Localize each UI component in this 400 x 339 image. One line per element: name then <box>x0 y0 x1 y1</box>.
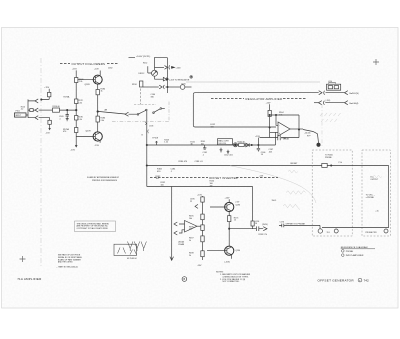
svg-text:.001: .001 <box>269 152 273 154</box>
relay dashed link <box>140 89 142 105</box>
resistor R197 <box>201 236 204 242</box>
connector J154 <box>327 84 341 90</box>
svg-text:-15V: -15V <box>197 265 202 267</box>
lower rail <box>147 165 330 167</box>
svg-text:AND THE LISTED: AND THE LISTED <box>58 261 73 264</box>
svg-text:PRINTED FOR REFERENCE: PRINTED FOR REFERENCE <box>92 180 118 182</box>
resistor R176 <box>75 116 78 121</box>
svg-text:(150V): (150V) <box>262 224 268 226</box>
resistor R195 <box>201 214 204 220</box>
svg-text:R170A: R170A <box>64 95 71 98</box>
svg-text:10: 10 <box>261 154 263 156</box>
section boundary dash-dot <box>112 121 169 123</box>
svg-text:Q194: Q194 <box>235 250 240 252</box>
svg-text:REGULATOR AMPLIFIER: REGULATOR AMPLIFIER <box>246 97 283 101</box>
svg-text:R186 470: R186 470 <box>179 161 189 163</box>
registration mark <box>20 256 26 262</box>
svg-text:C164: C164 <box>282 138 287 140</box>
svg-text:PROBE PΧR: PROBE PΧR <box>366 232 378 234</box>
resistor R172 <box>75 99 78 104</box>
error line to op-amp <box>195 126 276 128</box>
capacitor C176 <box>279 224 284 228</box>
capacitor C164 bypass <box>260 130 300 138</box>
ground 2 <box>227 150 230 154</box>
resistor R176A <box>75 128 78 133</box>
svg-text:R199 2.7k: R199 2.7k <box>259 234 268 236</box>
svg-text:-15V: -15V <box>71 150 76 152</box>
component outline drawing <box>114 244 137 255</box>
svg-text:BͷW 67(4): BͷW 67(4) <box>350 93 360 95</box>
svg-text:OUTPUT: OUTPUT <box>370 179 379 181</box>
signal wire to switch <box>98 111 125 114</box>
svg-text:+15V: +15V <box>266 103 272 105</box>
resistor R186 <box>96 116 99 122</box>
bias box L150 <box>218 139 233 145</box>
svg-text:OFFSET: OFFSET <box>290 163 298 165</box>
svg-text:45 2548 04: 45 2548 04 <box>127 258 136 260</box>
svg-text:+100V (DCPL): +100V (DCPL) <box>136 56 151 58</box>
svg-text:150.5: 150.5 <box>272 200 277 202</box>
svg-text:2.2k: 2.2k <box>79 81 83 83</box>
wire to followers <box>39 109 53 111</box>
svg-text:+10V: +10V <box>94 69 99 71</box>
svg-text:+15: +15 <box>375 211 378 213</box>
svg-text:Q193: Q193 <box>235 205 240 207</box>
svg-text:1k: 1k <box>101 91 103 93</box>
svg-text:C182: C182 <box>108 68 113 70</box>
capacitor C199 <box>256 226 263 231</box>
svg-text:R114 40: R114 40 <box>53 106 60 108</box>
svg-text:INPUT AMPLIFIER: INPUT AMPLIFIER <box>346 254 364 257</box>
REGULATOR AMPLIFIER label <box>211 98 244 100</box>
op-amp U163A <box>185 221 198 233</box>
svg-text:C188 .01: C188 .01 <box>195 161 204 163</box>
svg-text:-15V: -15V <box>46 132 51 134</box>
svg-text:R152: R152 <box>143 63 147 65</box>
transistor Q193 <box>225 202 234 211</box>
capacitor C161 <box>203 145 206 149</box>
svg-text:PROBE: PROBE <box>346 251 354 253</box>
pin arrow P1 <box>35 99 38 103</box>
regulator sense vertical <box>193 94 195 127</box>
svg-text:-15 (V): -15 (V) <box>304 132 311 134</box>
svg-text:SCANS BY ARTEKMEDIA SCANS BY: SCANS BY ARTEKMEDIA SCANS BY <box>87 176 120 179</box>
svg-text:.1: .1 <box>59 119 61 121</box>
transistor Q183 <box>93 75 102 84</box>
main rail <box>147 132 276 145</box>
op-amp U163B <box>276 115 278 125</box>
diode CR154 row <box>155 77 167 81</box>
+15V row <box>155 66 165 68</box>
diode CR156 row <box>143 86 159 88</box>
pin arrow P2 <box>28 108 38 112</box>
wire <box>26 99 35 117</box>
ghost zigzags <box>286 191 306 195</box>
pin arrow P3 <box>35 116 38 120</box>
svg-text:+15V: +15V <box>255 136 261 138</box>
left loop wire <box>170 187 174 261</box>
resistor R198 <box>201 251 204 257</box>
capacitor C166 <box>257 148 260 151</box>
svg-text:Q183: Q183 <box>85 84 91 86</box>
bus vertical <box>167 58 169 93</box>
switch S150 blade 2 <box>153 112 155 114</box>
svg-text:(-15V): (-15V) <box>326 100 331 102</box>
section divider right <box>321 104 323 148</box>
feedback wire <box>270 115 299 130</box>
wire top of inverter <box>147 187 253 222</box>
svg-text:OFFSET INVERTER: OFFSET INVERTER <box>209 176 238 180</box>
switch S150 blade 1 <box>137 114 139 116</box>
svg-text:± PROBE: ± PROBE <box>366 197 375 199</box>
resistor R114 <box>53 108 60 112</box>
svg-text:100: 100 <box>211 126 214 128</box>
svg-text:(+15V TO REGULATOR: (+15V TO REGULATOR <box>169 78 190 81</box>
resistor R103 <box>48 89 50 93</box>
svg-text:30: 30 <box>191 144 193 146</box>
svg-text:R??: R?? <box>307 136 310 138</box>
svg-text:L154: L154 <box>328 81 332 83</box>
dashed box INPUT AMPLIFIER <box>362 150 390 236</box>
svg-text:+15V: +15V <box>72 69 78 71</box>
svg-text:+15V,: +15V, <box>176 68 182 70</box>
node A <box>233 143 237 147</box>
svg-text:10k: 10k <box>189 218 192 220</box>
resistor R168 <box>75 78 78 83</box>
svg-text:C156: C156 <box>181 84 186 86</box>
connector J158 on feeder <box>145 122 147 124</box>
transistor Q194 <box>225 246 234 255</box>
ground <box>220 148 223 152</box>
svg-text:C16AB: C16AB <box>178 243 185 246</box>
svg-text:742: 742 <box>364 278 369 282</box>
svg-text:& SEMICONDUCTOR TYPES.: & SEMICONDUCTOR TYPES. <box>223 276 249 278</box>
OUTPUT FOLLOWERS label <box>60 63 70 65</box>
inductor L156 <box>251 221 254 226</box>
svg-text:Q178: Q178 <box>86 131 92 133</box>
svg-text:(-15V): (-15V) <box>225 262 231 264</box>
svg-text:71A AMPLIFIER: 71A AMPLIFIER <box>17 277 42 281</box>
svg-text:NOT CONNECTED.: NOT CONNECTED. <box>223 281 240 283</box>
svg-text:C176: C176 <box>280 222 285 224</box>
emitter chain <box>97 84 99 132</box>
lamp left branch <box>148 66 152 73</box>
svg-text:P101: P101 <box>16 111 20 113</box>
pin arrow <box>125 112 137 116</box>
svg-text:100: 100 <box>201 143 204 145</box>
resistor R191 <box>201 197 204 202</box>
svg-text:2.4k: 2.4k <box>101 120 105 122</box>
faint bus wire <box>186 81 320 83</box>
svg-text:151: 151 <box>327 232 330 234</box>
svg-text:330: 330 <box>151 97 154 99</box>
svg-text:BͷH 60(4): BͷH 60(4) <box>350 103 359 105</box>
svg-text:OUTPUT FOLLOWERS: OUTPUT FOLLOWERS <box>72 62 106 66</box>
svg-text:DS152: DS152 <box>139 73 145 75</box>
svg-text:2k: 2k <box>189 255 191 257</box>
resistor R184 <box>96 90 99 95</box>
OFFSET INVERTER label <box>150 176 208 178</box>
lamp DS152 <box>154 58 156 71</box>
ghost curve <box>230 166 316 203</box>
pin pair P1 <box>319 91 322 95</box>
ghost hatching <box>320 113 341 116</box>
svg-text:REFERENCE DIAGRAM: REFERENCE DIAGRAM <box>341 246 368 249</box>
svg-text:C162 .001: C162 .001 <box>224 155 233 157</box>
output to probe net <box>229 228 256 230</box>
resistor R107 <box>39 118 50 121</box>
dashed box PROBE <box>312 150 352 236</box>
svg-text:5k: 5k <box>189 240 191 242</box>
svg-text:NOTES:: NOTES: <box>216 271 224 273</box>
svg-text:470: 470 <box>63 131 66 133</box>
rail through boxes <box>322 166 389 228</box>
svg-text:TP158: TP158 <box>152 138 158 140</box>
section divider dash-dot <box>40 58 42 268</box>
svg-text:2.4k: 2.4k <box>78 103 82 105</box>
node circle <box>190 76 193 79</box>
pin pair P2 <box>345 91 348 95</box>
test point TP158 <box>156 141 158 145</box>
svg-text:← PART NO 388-1234-00: ← PART NO 388-1234-00 <box>56 266 78 269</box>
diode CR162 <box>246 143 249 147</box>
svg-text:22: 22 <box>190 201 192 203</box>
svg-text:INPUT: INPUT <box>15 115 22 117</box>
capacitor C169 branch <box>67 109 68 110</box>
resistor R158 <box>140 81 143 87</box>
copyright box <box>75 221 116 232</box>
svg-text:+15V: +15V <box>259 175 264 177</box>
thermistor C156 <box>180 85 185 90</box>
divider rail <box>75 70 77 146</box>
wire to connector <box>193 93 318 95</box>
wire to pass element <box>303 130 318 134</box>
svg-text:-15V: -15V <box>95 145 100 147</box>
node B <box>182 277 187 282</box>
svg-text:1.2k: 1.2k <box>164 142 168 144</box>
svg-text:PROBE: PROBE <box>325 157 332 159</box>
transistor Q178 <box>93 132 102 141</box>
feeder vertical <box>146 111 148 187</box>
output <box>290 128 303 130</box>
registration mark <box>373 59 379 65</box>
svg-text:COPYRIGHT 1971 ALL RIGHTS RSVD: COPYRIGHT 1971 ALL RIGHTS RSVD <box>77 227 109 230</box>
resistor R175 <box>228 216 231 222</box>
svg-text:100: 100 <box>161 184 164 186</box>
svg-text:10: 10 <box>255 223 257 225</box>
svg-text:.1: .1 <box>203 154 205 156</box>
resistor R196 <box>201 225 204 231</box>
svg-text:OFFSET TO PROBE: OFFSET TO PROBE <box>286 224 306 226</box>
offset to probe wire <box>284 225 320 228</box>
svg-text:50Ω L150: 50Ω L150 <box>218 143 226 145</box>
svg-text:R158: R158 <box>132 84 137 86</box>
svg-text:J158: J158 <box>149 125 153 127</box>
row 2 pins <box>314 102 319 104</box>
svg-text:15: 15 <box>234 220 236 222</box>
pin J151 <box>318 229 322 233</box>
svg-text:+15V: +15V <box>197 195 203 197</box>
svg-text:7.5k: 7.5k <box>338 162 342 164</box>
svg-text:2.4k: 2.4k <box>78 119 82 121</box>
svg-text:OFFSET GENERATOR: OFFSET GENERATOR <box>318 278 355 282</box>
svg-text:4.2: 4.2 <box>21 109 24 111</box>
